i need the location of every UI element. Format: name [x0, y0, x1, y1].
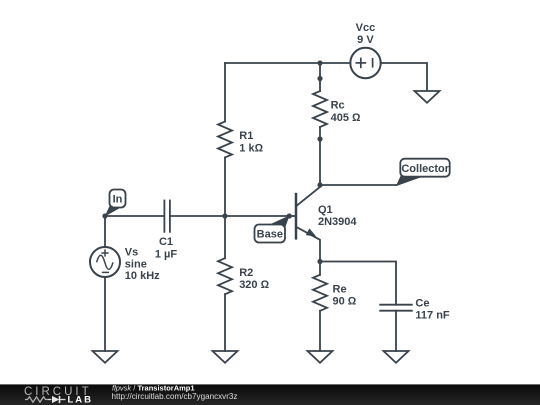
- svg-text:sine: sine: [125, 259, 147, 271]
- svg-text:Rc: Rc: [331, 100, 345, 112]
- svg-text:1 kΩ: 1 kΩ: [239, 143, 263, 155]
- svg-text:2N3904: 2N3904: [318, 216, 357, 228]
- svg-text:LAB: LAB: [68, 395, 94, 405]
- svg-text:405 Ω: 405 Ω: [331, 112, 361, 124]
- svg-text:Collector: Collector: [401, 163, 449, 175]
- svg-text:C1: C1: [159, 236, 173, 248]
- svg-text:R1: R1: [239, 130, 253, 142]
- svg-text:Vcc: Vcc: [356, 22, 376, 34]
- svg-text:Re: Re: [333, 283, 347, 295]
- svg-text:Base: Base: [257, 228, 283, 240]
- svg-text:320 Ω: 320 Ω: [239, 279, 269, 291]
- svg-text:9 V: 9 V: [357, 34, 374, 46]
- svg-text:Ce: Ce: [415, 298, 429, 310]
- svg-text:R2: R2: [239, 267, 253, 279]
- svg-text:1 µF: 1 µF: [155, 248, 178, 260]
- svg-text:10 kHz: 10 kHz: [125, 270, 160, 282]
- svg-text:117 nF: 117 nF: [415, 310, 450, 322]
- svg-text:http://circuitlab.com/cb7yganc: http://circuitlab.com/cb7ygancxvr3z: [112, 392, 238, 401]
- svg-text:Q1: Q1: [318, 204, 333, 216]
- svg-text:In: In: [113, 194, 123, 206]
- svg-text:90 Ω: 90 Ω: [333, 295, 357, 307]
- svg-text:Vs: Vs: [125, 247, 138, 259]
